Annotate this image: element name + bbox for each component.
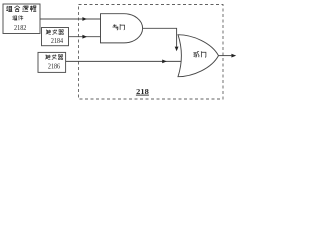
arrowhead on wire 3 — [162, 60, 167, 64]
OR gate 或门 — [178, 35, 219, 77]
wire: AND output down to OR gate — [143, 28, 177, 46]
wire: 2186 output to OR gate — [66, 60, 182, 62]
arrowhead on OR output — [231, 54, 236, 58]
dashed module box 218 — [79, 5, 224, 100]
block: flip-flop 2186 — [38, 52, 66, 72]
svg-text:2182: 2182 — [14, 23, 27, 32]
block: flip-flop 2184 — [42, 28, 69, 46]
wire: 2182 output to AND gate — [40, 18, 101, 20]
block: combinational logic component 2182 — [3, 4, 40, 34]
arrowhead on wire 2 — [82, 35, 87, 39]
underline for 218 — [136, 94, 149, 96]
AND gate 与门 — [101, 14, 143, 43]
svg-text:218: 218 — [136, 87, 149, 96]
arrowhead on AND output — [175, 47, 179, 52]
arrowhead on wire 1 — [82, 17, 87, 21]
svg-text:2184: 2184 — [51, 36, 63, 45]
wire: 2184 output to AND gate — [69, 36, 101, 38]
svg-text:2186: 2186 — [48, 62, 60, 71]
wire: OR gate output — [219, 55, 232, 57]
